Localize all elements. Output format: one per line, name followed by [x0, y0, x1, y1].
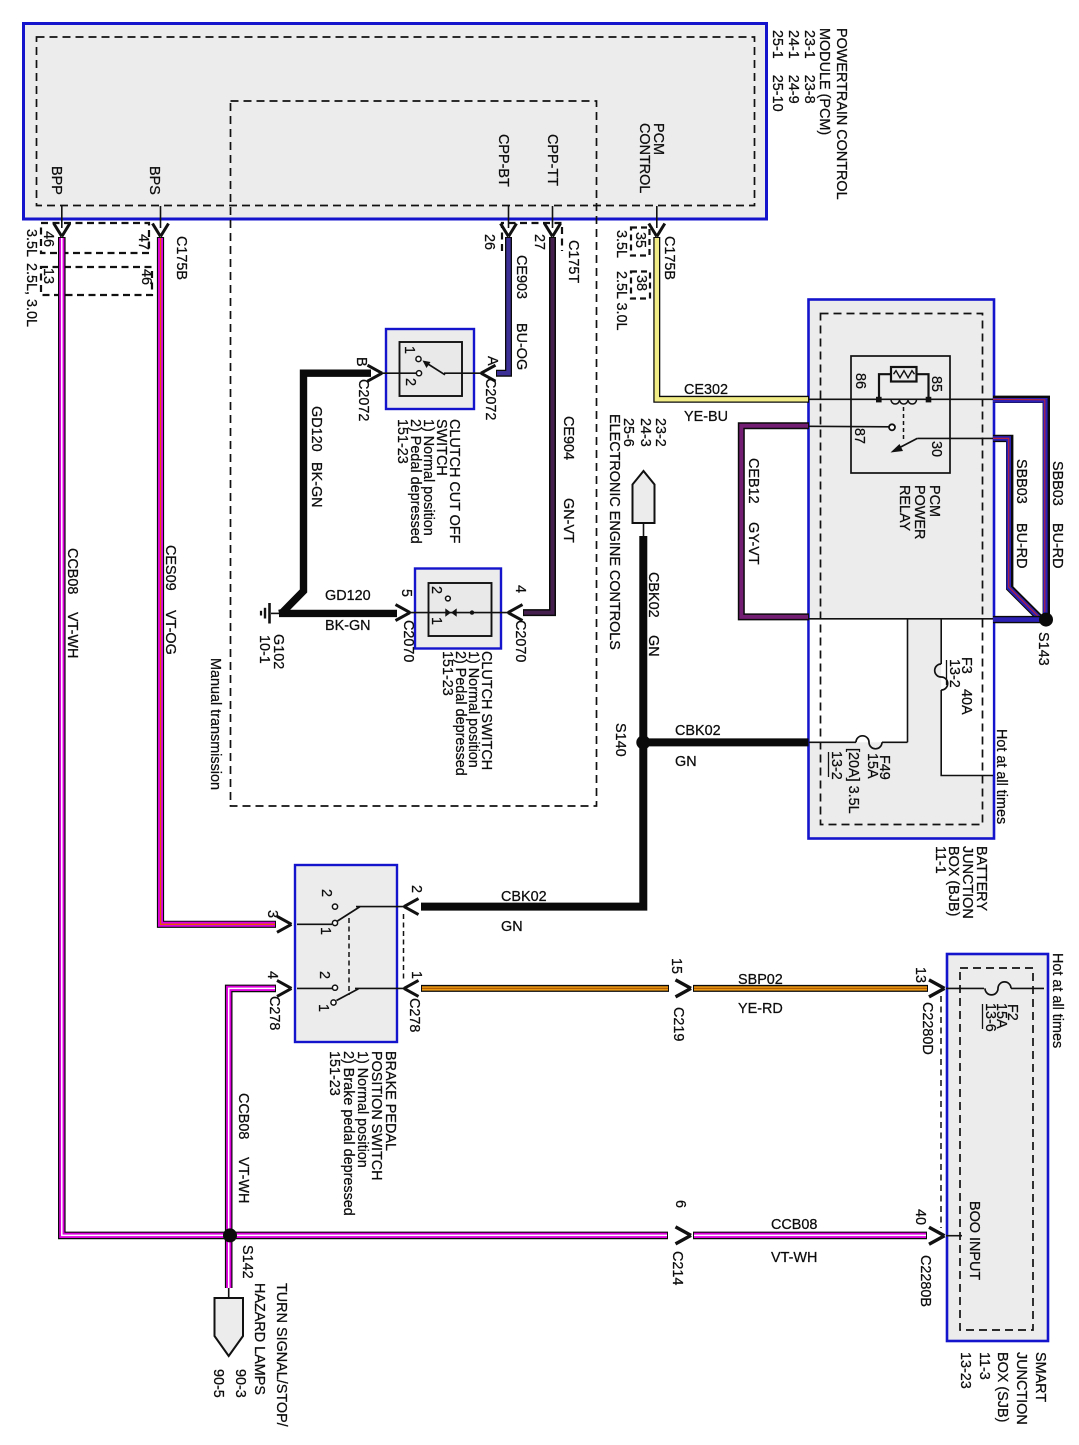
svg-text:C278: C278 [266, 996, 282, 1030]
svg-text:13: 13 [40, 268, 56, 284]
svg-text:GN: GN [645, 635, 661, 657]
connector C278 dashed link outside box [403, 914, 405, 980]
splice node S142 [223, 1228, 255, 1278]
svg-text:30: 30 [928, 441, 944, 457]
pin 5 of clutch switch with connector C2070 [396, 589, 417, 662]
svg-text:C175T: C175T [565, 240, 581, 283]
svg-text:S143: S143 [1035, 632, 1051, 666]
svg-text:VT-WH: VT-WH [64, 612, 80, 658]
label CEB12 GY-VT [745, 458, 761, 565]
splice node S143 [1035, 613, 1053, 666]
wire SBB03 BU-RD from relay pin 85 to S143 [993, 399, 1046, 614]
svg-text:GN: GN [675, 754, 697, 770]
svg-text:1: 1 [317, 927, 333, 935]
label SBP02 YE-RD [738, 972, 783, 1017]
svg-text:BK-GN: BK-GN [325, 618, 371, 634]
svg-text:BU-RD: BU-RD [1049, 523, 1065, 569]
svg-text:46: 46 [40, 231, 56, 247]
page refs 23-2 24-3 25-6 [620, 418, 668, 447]
svg-text:5: 5 [398, 589, 414, 597]
svg-text:CPP-BT: CPP-BT [495, 134, 511, 187]
svg-text:3.5L: 3.5L [613, 230, 629, 258]
svg-text:15: 15 [668, 958, 684, 974]
caption TURN SIGNAL/STOP/HAZARD LAMPS 90-3 90-5 [210, 1283, 289, 1427]
svg-text:HAZARD LAMPS: HAZARD LAMPS [251, 1283, 267, 1395]
svg-text:C2070: C2070 [512, 620, 528, 662]
svg-text:15A: 15A [864, 753, 880, 779]
wire CE302 YE-BU from PCM CONTROL to relay pin 86 [657, 237, 809, 399]
svg-text:GY-VT: GY-VT [745, 522, 761, 565]
svg-text:BU-RD: BU-RD [1013, 523, 1029, 569]
svg-text:CCB08: CCB08 [64, 548, 80, 594]
svg-text:4: 4 [512, 585, 528, 593]
svg-text:151-23: 151-23 [439, 651, 455, 696]
BJB box: BATTERY JUNCTION BOX [809, 300, 995, 839]
wire CCB08 VT-WH from BPP down and right to S142 and C214 [62, 237, 927, 1235]
svg-text:2: 2 [408, 885, 424, 893]
svg-text:40A: 40A [958, 689, 974, 715]
svg-text:CBK02: CBK02 [645, 572, 661, 618]
relay contact 30 blade [891, 438, 994, 452]
label GD120 BK-GN (vertical wire) [308, 406, 324, 508]
svg-text:85: 85 [928, 376, 944, 392]
pin 1 of brake switch with connector C278 [404, 971, 424, 1032]
svg-text:RELAY: RELAY [896, 485, 912, 532]
svg-text:BU-OG: BU-OG [513, 323, 529, 370]
connector C175B dashed box pins 46/47 (3.5L) [40, 223, 151, 253]
svg-text:2: 2 [402, 378, 418, 386]
svg-text:23-1 23-8: 23-1 23-8 [801, 30, 817, 104]
pin CPP-BT of PCM [495, 134, 517, 237]
svg-text:27: 27 [531, 234, 547, 250]
relay interior line 86-85 [809, 398, 994, 400]
ELECTRONIC ENGINE CONTROLS dashed box (manual transmission region) [231, 101, 597, 806]
svg-text:SBB03: SBB03 [1013, 459, 1029, 504]
svg-text:2.5L 3.0L: 2.5L 3.0L [613, 271, 629, 330]
svg-text:C2280D: C2280D [919, 1002, 935, 1055]
svg-text:YE-BU: YE-BU [684, 409, 728, 425]
relay pin labels 86 85 87 30 [851, 373, 944, 457]
svg-text:13-2: 13-2 [828, 751, 844, 780]
label CBK02 GN (S140 to BJB run) [675, 723, 721, 770]
svg-text:BPS: BPS [146, 166, 162, 195]
svg-text:CCB08: CCB08 [235, 1093, 251, 1139]
pin 4 of clutch switch with connector C2070 [508, 585, 528, 662]
wire CES09 VT-OG from BPS down to brake switch pin 3 [161, 237, 277, 924]
svg-text:24-1 24-9: 24-1 24-9 [785, 30, 801, 104]
svg-text:Manual transmission: Manual transmission [207, 658, 223, 790]
svg-text:3.5L: 3.5L [23, 229, 39, 257]
pin A of clutch cut off switch with connector C2072 [481, 356, 500, 420]
svg-text:90-3: 90-3 [232, 1369, 248, 1398]
svg-text:ELECTRONIC ENGINE CONTROLS: ELECTRONIC ENGINE CONTROLS [606, 414, 622, 650]
wire CCB08 VT-WH from brake pin 4 down to S142 and turn signal lamps [229, 988, 276, 1288]
svg-text:POWER: POWER [911, 485, 927, 539]
pin 4 of brake switch with connector C278 [264, 971, 292, 1030]
svg-text:25-1 25-10: 25-1 25-10 [769, 30, 785, 112]
svg-text:151-23: 151-23 [394, 419, 410, 464]
svg-text:13-6: 13-6 [982, 1003, 998, 1032]
svg-text:1: 1 [315, 1004, 331, 1012]
splice node S140 [612, 723, 650, 757]
svg-text:47: 47 [135, 234, 151, 250]
svg-text:23-2: 23-2 [652, 418, 668, 447]
svg-text:26: 26 [481, 234, 497, 250]
svg-text:13-2: 13-2 [946, 659, 962, 688]
wire CBK02 GN heavy from EEC pentagon to S140 to brake switch pin 2 [421, 536, 809, 907]
svg-text:BOX (SJB): BOX (SJB) [994, 1352, 1010, 1422]
svg-text:C175B: C175B [661, 236, 677, 280]
engine variant labels 3.5L / 2.5L 3.0L [23, 229, 39, 327]
svg-text:MODULE (PCM): MODULE (PCM) [816, 28, 832, 135]
pin BPP of PCM [48, 166, 70, 237]
clutch switch contacts [410, 586, 508, 625]
svg-text:VT-WH: VT-WH [235, 1157, 251, 1203]
svg-text:JUNCTION: JUNCTION [1013, 1352, 1029, 1425]
pin PCM CONTROL of PCM [636, 123, 666, 237]
label CCB08 VT-WH (bottom run) [771, 1217, 817, 1266]
svg-text:4: 4 [264, 971, 280, 979]
pin BPS of PCM [146, 166, 169, 237]
brake switch actuator dashed link [348, 918, 350, 995]
svg-text:BPP: BPP [48, 166, 64, 195]
svg-text:13-23: 13-23 [957, 1352, 973, 1389]
svg-text:2: 2 [428, 586, 444, 594]
svg-text:CCB08: CCB08 [771, 1217, 817, 1233]
in-line connector C219 pin 15 [668, 958, 691, 1041]
fuse F2 15A 13-6 inside SJB [946, 982, 1044, 1032]
PCM box: POWERTRAIN CONTROL MODULE [24, 24, 767, 220]
BJB label BATTERY JUNCTION BOX (BJB) 11-1 [932, 846, 989, 919]
svg-text:SMART: SMART [1032, 1352, 1048, 1402]
ELECTRONIC ENGINE CONTROLS pentagon arrow [633, 471, 655, 536]
svg-text:BOO INPUT: BOO INPUT [966, 1201, 982, 1280]
pin 2 of brake switch [404, 885, 424, 915]
brake switch caption [326, 1051, 398, 1216]
svg-text:SBP02: SBP02 [738, 972, 783, 988]
relay caption PCM POWER RELAY [896, 485, 942, 539]
in-line connector C214 pin 6 [669, 1200, 691, 1285]
turn signal pentagon arrow [215, 1288, 244, 1356]
svg-text:1: 1 [401, 346, 417, 354]
svg-text:C2072: C2072 [355, 379, 371, 421]
wire GD120 BK-GN from pin B to ground and clutch switch pin 5 [279, 373, 397, 613]
svg-text:2.5L, 3.0L: 2.5L, 3.0L [23, 263, 39, 327]
svg-text:VT-OG: VT-OG [162, 610, 178, 655]
svg-text:24-3: 24-3 [637, 418, 653, 447]
svg-text:CE302: CE302 [684, 382, 728, 398]
svg-text:151-23: 151-23 [326, 1051, 342, 1096]
wire CE904 GN-VT from CPP-TT to clutch switch pin 4 [523, 237, 553, 613]
wire SBB03 BU-RD from relay pin 30 to S143 [993, 438, 1040, 618]
brake switch lower contacts (pins 4-1) [297, 971, 404, 1012]
fuse F3 40A 13-2 [935, 657, 974, 715]
svg-text:VT-WH: VT-WH [771, 1250, 817, 1266]
svg-text:3: 3 [264, 910, 280, 918]
svg-text:CEB12: CEB12 [745, 458, 761, 504]
relay armature dashed link [903, 407, 905, 441]
wire CE903 BU-OG from CPP-BT to clutch cut off switch pin A [496, 237, 509, 373]
svg-text:11-1: 11-1 [932, 846, 948, 874]
svg-text:C175B: C175B [173, 236, 189, 280]
label SBB03 BU-RD (right wire) [1049, 461, 1065, 569]
svg-text:A: A [484, 356, 500, 366]
svg-text:87: 87 [851, 428, 867, 444]
clutch switch caption [439, 651, 494, 776]
fuse F49 15A [20A] 3.5L 13-2 [809, 736, 908, 814]
pin CPP-TT of PCM [544, 134, 561, 237]
svg-text:[20A] 3.5L: [20A] 3.5L [845, 748, 861, 814]
svg-text:CONTROL: CONTROL [636, 123, 652, 193]
label CBK02 GN (brake switch run) [501, 889, 547, 935]
svg-text:S140: S140 [612, 723, 628, 757]
label SBB03 BU-RD (left wire) [1013, 459, 1029, 569]
svg-text:C278: C278 [406, 998, 422, 1032]
connector C2280D pin 13 into SJB [912, 967, 945, 1055]
ground G102 [256, 603, 286, 669]
svg-text:PCM: PCM [926, 485, 942, 517]
BJB internal feed line from CEB12/S143 [809, 618, 994, 620]
svg-text:GN-VT: GN-VT [560, 498, 576, 543]
svg-text:46: 46 [138, 269, 154, 285]
label CES09 VT-OG [162, 545, 178, 655]
svg-text:YE-RD: YE-RD [738, 1001, 783, 1017]
svg-text:CE904: CE904 [560, 416, 576, 460]
label CCB08 VT-WH (left wire) [64, 548, 80, 658]
svg-text:11-3: 11-3 [976, 1352, 992, 1380]
svg-text:40: 40 [912, 1209, 928, 1225]
svg-text:6: 6 [672, 1200, 688, 1208]
svg-text:Hot at all times: Hot at all times [993, 729, 1009, 824]
label CE904 GN-VT [560, 416, 576, 543]
relay contact 87 and line [809, 424, 896, 430]
svg-text:B: B [353, 357, 369, 367]
label GD120 BK-GN (horizontal wire) [325, 588, 371, 634]
svg-text:TURN SIGNAL/STOP/: TURN SIGNAL/STOP/ [273, 1283, 289, 1427]
svg-text:POWERTRAIN CONTROL: POWERTRAIN CONTROL [833, 28, 849, 200]
svg-text:1: 1 [408, 971, 424, 979]
connector C2280 dashed link [940, 996, 942, 1228]
svg-text:CBK02: CBK02 [675, 723, 721, 739]
wire SBB03 from S143 into BJB [993, 616, 1044, 623]
svg-text:1: 1 [428, 617, 444, 625]
svg-text:C2072: C2072 [482, 378, 498, 420]
connector C175T dashed box pins 26/27 [481, 223, 581, 283]
connector C175B dashed box pins 13/46 (2.5L 3.0L) [40, 267, 154, 295]
svg-text:GN: GN [501, 919, 523, 935]
PCM power relay box [851, 356, 950, 473]
wire CEB12 GY-VT from relay pin 87 out of BJB and back to BJB lower line [741, 426, 809, 617]
svg-text:SBB03: SBB03 [1049, 461, 1065, 506]
svg-text:90-5: 90-5 [210, 1369, 226, 1398]
SJB label SMART JUNCTION BOX (SJB) 11-3 13-23 [957, 1352, 1048, 1425]
svg-text:10-1: 10-1 [256, 635, 272, 664]
pin 3 of brake switch [264, 910, 292, 932]
connector C2280B pin 40 into SJB [912, 1209, 962, 1307]
svg-text:S142: S142 [239, 1245, 255, 1279]
svg-text:GD120: GD120 [308, 406, 324, 452]
clutch cut off switch box [386, 329, 474, 409]
svg-text:38: 38 [633, 275, 649, 291]
svg-text:GD120: GD120 [325, 588, 371, 604]
wire SBP02 YE-RD from brake pin 1 to SJB [421, 985, 928, 992]
svg-text:35: 35 [632, 232, 648, 248]
svg-text:CBK02: CBK02 [501, 889, 547, 905]
pin B of clutch cut off switch with connector C2072 [353, 357, 382, 421]
label CBK02 GN (vertical run) [645, 572, 661, 657]
svg-text:CE903: CE903 [513, 255, 529, 299]
svg-text:25-6: 25-6 [620, 418, 636, 447]
connector C175B dashed boxes pins 35/38 [613, 228, 677, 331]
svg-text:2: 2 [318, 889, 334, 897]
label CE302 YE-BU [684, 382, 728, 425]
brake pedal position switch box [295, 865, 397, 1042]
svg-text:C214: C214 [669, 1251, 685, 1285]
BJB white compartment with fuse F3 [941, 619, 993, 776]
brake switch upper contacts (pins 3-2) [297, 889, 404, 935]
clutch cut off switch caption [394, 419, 462, 544]
BJB white compartment with fuse F49 [907, 619, 909, 743]
clutch cut off switch contacts and blade [382, 346, 481, 386]
svg-text:Hot at all times: Hot at all times [1049, 953, 1065, 1048]
relay coil with zigzag [876, 367, 931, 404]
svg-text:C219: C219 [670, 1007, 686, 1041]
label CCB08 VT-WH (pin 4 wire) [235, 1093, 251, 1203]
svg-text:C2280B: C2280B [917, 1255, 933, 1307]
svg-text:86: 86 [852, 373, 868, 389]
clutch switch box [415, 569, 501, 649]
PCM title label POWERTRAIN CONTROL MODULE (PCM) with page refs [769, 28, 849, 200]
svg-text:13: 13 [912, 967, 928, 983]
label CE903 BU-OG [513, 255, 529, 370]
svg-text:2: 2 [316, 971, 332, 979]
svg-text:CES09: CES09 [162, 545, 178, 591]
svg-text:CPP-TT: CPP-TT [544, 134, 560, 186]
svg-text:C2070: C2070 [400, 620, 416, 662]
svg-text:BK-GN: BK-GN [308, 462, 324, 508]
SJB box: SMART JUNCTION BOX [947, 954, 1048, 1341]
